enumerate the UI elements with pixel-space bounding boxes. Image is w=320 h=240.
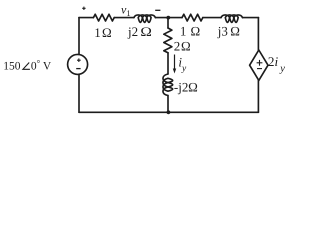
- wire L3 to bottom node: [167, 96, 169, 113]
- current arrow iy: [173, 55, 176, 74]
- svg-text:1: 1: [180, 23, 187, 38]
- wire R3 to L3: [167, 53, 169, 74]
- inductor L2 j3ohm coil: [221, 15, 243, 23]
- svg-text:j2: j2: [127, 24, 138, 39]
- svg-text:150: 150: [3, 61, 21, 73]
- inductor L3 -j2ohm vertical coil: [163, 74, 173, 95]
- wire R1 to L1: [114, 17, 134, 19]
- wire node A down to R3: [167, 18, 169, 28]
- svg-text:0° V: 0° V: [31, 58, 52, 73]
- wire L1 to node A: [155, 17, 168, 19]
- svg-text:Ω: Ω: [191, 23, 201, 38]
- minus sign inside source: [76, 68, 80, 70]
- resistor R3 2ohm vertical zigzag: [164, 28, 172, 53]
- node B junction dot bottom: [167, 110, 171, 114]
- svg-text:1: 1: [94, 25, 101, 40]
- svg-text:-j2: -j2: [174, 79, 188, 94]
- plus sign inside source: [77, 58, 81, 62]
- polarity plus of v1: [82, 7, 85, 10]
- wire left vertical bottom (corner to source): [78, 74, 80, 112]
- svg-text:y: y: [181, 64, 187, 74]
- node A junction dot: [166, 16, 170, 20]
- resistor R2 1ohm top-right zigzag: [182, 14, 203, 21]
- dependent source U1 diamond: [250, 50, 268, 80]
- svg-text:Ω: Ω: [102, 25, 112, 40]
- wire right vertical top (corner to diamond): [257, 18, 259, 50]
- svg-text:Ω: Ω: [230, 23, 240, 38]
- wire bottom rail right: [168, 111, 258, 113]
- resistor R1 1ohm top-left zigzag: [93, 14, 114, 21]
- wire bottom rail left: [79, 111, 168, 113]
- wire R2 to L2: [203, 17, 221, 19]
- polarity minus of v1: [155, 9, 160, 11]
- svg-text:Ω: Ω: [181, 39, 191, 54]
- svg-text:j3: j3: [217, 23, 228, 38]
- wire top-left horizontal: [79, 17, 93, 19]
- svg-text:1: 1: [126, 8, 130, 18]
- inductor L1 j2ohm coil: [134, 15, 156, 23]
- svg-text:2: 2: [174, 39, 181, 54]
- plusminus inside diamond: [257, 60, 263, 69]
- svg-text:y: y: [279, 64, 285, 75]
- wire node A to R2: [168, 17, 182, 19]
- wire L2 to top-right corner: [243, 17, 259, 19]
- voltage source V1 circle: [68, 54, 88, 74]
- wire right vertical bottom (diamond to corner): [257, 80, 259, 112]
- svg-text:Ω: Ω: [140, 24, 152, 39]
- wire left vertical (source to top-left corner): [78, 18, 80, 55]
- svg-text:Ω: Ω: [188, 79, 198, 94]
- svg-text:2i: 2i: [268, 54, 279, 69]
